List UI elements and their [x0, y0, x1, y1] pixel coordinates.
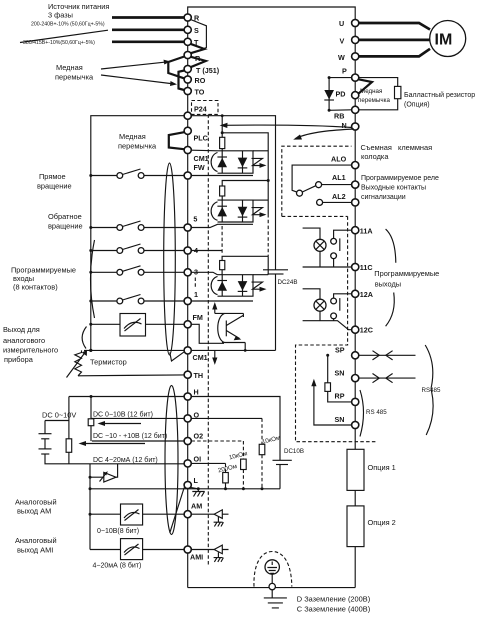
lamp unit 12A-12C	[303, 289, 352, 330]
resistor ballast	[395, 86, 401, 98]
svg-text:RO: RO	[195, 76, 206, 85]
svg-text:H: H	[194, 388, 199, 397]
terminal RP	[352, 398, 359, 405]
svg-text:Термистор: Термистор	[90, 358, 127, 367]
svg-text:R: R	[195, 54, 201, 63]
terminal R	[184, 14, 191, 21]
svg-text:измерительного: измерительного	[3, 346, 58, 355]
terminal SN lower	[352, 421, 359, 428]
wire opto1 output	[253, 150, 268, 152]
wire chain branch right	[222, 133, 268, 200]
ballast resistor branch	[359, 78, 398, 110]
terminal AMI	[184, 546, 191, 553]
motor IM	[430, 21, 466, 57]
arrow down boundary	[214, 350, 216, 361]
buffer OI arrow	[100, 473, 107, 482]
small brace RS485	[360, 390, 364, 437]
junction dot rail 5	[89, 226, 92, 229]
relay contacts	[297, 190, 303, 196]
junction chain	[221, 131, 224, 134]
resistor 10k O	[259, 444, 265, 454]
wire right bus below options	[354, 547, 356, 588]
wire V to motor	[359, 39, 430, 42]
battery DC24V	[263, 269, 288, 271]
wire CM1 to battery minus	[191, 349, 275, 351]
svg-text:O2: O2	[194, 432, 204, 441]
wire OI line	[89, 462, 226, 464]
wire 5 to opto2	[191, 224, 253, 227]
wire top rail	[188, 7, 356, 23]
wire bottom analog rail	[90, 488, 280, 490]
arrow O2 label	[82, 443, 145, 445]
terminal AM	[184, 511, 191, 518]
wire phase T	[112, 40, 184, 43]
svg-text:выход AM: выход AM	[17, 507, 51, 516]
optocoupler 1	[211, 151, 266, 173]
svg-text:W: W	[338, 53, 345, 62]
arrow up boundary	[214, 306, 216, 314]
svg-text:выходы: выходы	[375, 280, 401, 289]
svg-text:Обратное: Обратное	[48, 212, 82, 221]
switch 1	[91, 295, 184, 302]
svg-text:(Опция): (Опция)	[404, 102, 430, 109]
svg-text:RS 485: RS 485	[366, 409, 387, 416]
wire AM row	[90, 513, 184, 515]
dashed boundary outputs	[296, 216, 376, 441]
svg-text:вращение: вращение	[48, 221, 83, 230]
svg-text:перемычка: перемычка	[55, 73, 94, 82]
diode PD	[324, 90, 334, 100]
brace outputs top	[386, 229, 396, 263]
curl mark near rail	[82, 327, 86, 349]
svg-text:380/415В+-10%(50,60Гц+-5%): 380/415В+-10%(50,60Гц+-5%)	[23, 40, 95, 46]
terminal T	[184, 38, 191, 45]
big brace RS485	[425, 345, 433, 435]
wire SN2 internal	[314, 382, 352, 425]
svg-text:Программируемое реле: Программируемое реле	[361, 175, 439, 182]
junction chain 2	[267, 179, 270, 182]
terminal FW	[184, 172, 191, 179]
resistor opto 3	[220, 261, 225, 270]
svg-text:Опция 2: Опция 2	[368, 518, 396, 527]
svg-text:Опция 1: Опция 1	[368, 463, 396, 472]
terminal RO	[184, 76, 191, 83]
svg-text:CM1: CM1	[194, 154, 209, 163]
meter AM box	[121, 504, 143, 525]
svg-text:PD: PD	[336, 90, 346, 99]
twist marks SP	[373, 351, 393, 360]
svg-text:SN: SN	[335, 415, 345, 424]
transistor FM	[215, 313, 245, 350]
jumper R-R2 copper detour	[190, 20, 207, 55]
wire FW to opto1	[191, 175, 253, 177]
svg-text:12C: 12C	[360, 326, 373, 335]
switch 5	[91, 221, 184, 228]
svg-text:Программируемые: Программируемые	[374, 269, 439, 278]
svg-text:C Заземление (400В): C Заземление (400В)	[297, 605, 370, 614]
arrow removable block long	[223, 125, 352, 128]
dashed box relay	[282, 146, 352, 216]
svg-text:DC 4−20мА (12 бит): DC 4−20мА (12 бит)	[93, 456, 158, 464]
jumper P-PD copper	[359, 79, 373, 93]
wire CM1 to opto1	[191, 149, 217, 152]
wire phase S	[112, 28, 184, 31]
terminal TH	[184, 371, 191, 378]
svg-text:Аналоговый: Аналоговый	[15, 536, 57, 545]
leader line voltage spec 2	[20, 30, 108, 42]
option 1 box	[347, 449, 364, 490]
cable shield ellipse 1	[164, 163, 176, 355]
terminal T J51	[184, 65, 191, 72]
svg-text:200-240В+-10% (50,60Гц+-5%): 200-240В+-10% (50,60Гц+-5%)	[31, 22, 105, 28]
wire W to motor	[359, 49, 430, 57]
dashed chain segment	[221, 226, 223, 254]
brace inputs	[91, 240, 95, 318]
buffer AM	[191, 513, 228, 515]
wire L to rail	[191, 488, 199, 489]
terminal 1	[184, 297, 191, 304]
jumper T-R copper	[189, 43, 204, 53]
optocoupler 3	[211, 275, 266, 297]
resistor O tap	[88, 419, 94, 426]
svg-text:L: L	[194, 476, 199, 485]
twist marks SN	[373, 374, 393, 383]
optocoupler 2	[211, 200, 266, 222]
switch 3	[91, 266, 184, 273]
svg-text:11A: 11A	[360, 227, 373, 236]
svg-text:прибора: прибора	[4, 355, 34, 364]
shield tail to CM1	[170, 352, 184, 361]
terminal AL1	[352, 181, 359, 188]
wire P24 to DC24 feed	[191, 116, 275, 270]
svg-text:SP: SP	[335, 346, 345, 355]
svg-text:RS485: RS485	[422, 387, 441, 394]
thermistor	[78, 350, 184, 375]
wire 3 to opto3	[191, 272, 217, 274]
terminal R jumper	[184, 51, 191, 58]
svg-text:Балластный резистор: Балластный резистор	[404, 91, 475, 99]
wire AL2 internal	[323, 201, 352, 203]
buffer AMI	[191, 549, 228, 551]
battery cells DC0-10	[39, 433, 52, 435]
resistor opto 1	[220, 137, 225, 148]
terminal O	[184, 415, 191, 422]
svg-text:V: V	[340, 37, 345, 46]
svg-text:сигнализации: сигнализации	[361, 194, 406, 201]
terminal OI	[184, 460, 191, 467]
wire AMI row	[90, 549, 184, 551]
terminal S	[184, 26, 191, 33]
svg-text:AL1: AL1	[332, 173, 346, 182]
terminal SN	[352, 375, 359, 382]
svg-text:T (J51): T (J51)	[196, 66, 220, 75]
switch FW	[91, 169, 184, 176]
svg-text:перемычка: перемычка	[358, 97, 390, 104]
cable shield ellipse 2	[165, 386, 178, 535]
svg-text:SN: SN	[335, 369, 345, 378]
terminal U	[352, 19, 359, 26]
jumper R-T copper	[189, 56, 206, 68]
option 2 box	[347, 506, 364, 547]
svg-text:DC24В: DC24В	[278, 279, 298, 286]
terminal W	[352, 53, 359, 60]
svg-text:Медная: Медная	[360, 88, 382, 95]
lamp unit 11A-11C	[303, 228, 352, 267]
jumper T-TO copper left	[179, 71, 185, 91]
svg-text:0−10В(8 бит): 0−10В(8 бит)	[97, 527, 139, 535]
dashed mark terminals 2	[194, 278, 196, 290]
junction SP	[326, 354, 329, 357]
terminal P	[352, 74, 359, 81]
arrow removable block curved	[296, 129, 355, 139]
wire FM to transistor	[191, 324, 224, 343]
terminal 12C	[352, 326, 359, 333]
resistor 200R	[223, 473, 229, 483]
svg-text:12A: 12A	[360, 290, 373, 299]
meter AMI box	[121, 539, 143, 560]
terminal H	[184, 393, 191, 400]
resistor RP	[328, 355, 352, 402]
svg-text:FM: FM	[193, 313, 203, 322]
svg-text:ALO: ALO	[331, 155, 347, 164]
wire O line	[91, 417, 262, 419]
battery DC10V	[273, 459, 292, 461]
junction dot rail 3	[89, 271, 92, 274]
svg-text:TH: TH	[194, 371, 204, 380]
svg-text:Съемная клеммная: Съемная клеммная	[361, 143, 433, 152]
terminal 3	[184, 269, 191, 276]
svg-text:Медная: Медная	[56, 63, 83, 72]
terminal N	[352, 123, 359, 130]
jumper R-RO copper left	[168, 57, 184, 79]
wire between options	[354, 490, 356, 506]
wire opto3 output	[253, 256, 268, 274]
svg-text:3 фазы: 3 фазы	[48, 11, 73, 20]
ground symbol	[264, 590, 287, 608]
svg-text:перемычка: перемычка	[118, 142, 157, 151]
terminal O2	[184, 437, 191, 444]
svg-text:RB: RB	[334, 112, 344, 121]
wire ALO internal	[292, 165, 352, 192]
svg-text:PLC: PLC	[194, 134, 208, 143]
dashed box P24	[192, 101, 219, 115]
buffer OI	[104, 472, 116, 482]
arrow to jumper 1	[101, 62, 168, 69]
svg-text:вращение: вращение	[37, 182, 72, 191]
terminal ALO	[352, 162, 359, 169]
svg-text:P: P	[342, 67, 347, 76]
terminal 11A	[352, 227, 359, 234]
svg-text:R: R	[194, 14, 200, 23]
terminal P24	[184, 112, 191, 119]
svg-text:5: 5	[193, 215, 197, 224]
wire SN line	[352, 377, 416, 379]
svg-text:выход AMI: выход AMI	[17, 545, 53, 554]
arrow O label	[101, 423, 141, 425]
svg-text:DC −10 - +10В (12 бит): DC −10 - +10В (12 бит)	[93, 432, 167, 440]
wire phase R	[112, 16, 184, 19]
terminal RB	[352, 106, 359, 113]
wire SP line	[352, 354, 416, 356]
resistor 10k O2	[241, 459, 247, 469]
terminal CM1	[184, 146, 191, 153]
terminal L	[184, 481, 191, 488]
wire bottom rail	[188, 587, 356, 589]
svg-text:TO: TO	[195, 88, 205, 97]
wire 1 to opto3	[191, 300, 253, 302]
thermistor arrow	[67, 353, 86, 378]
ground hatch L	[192, 489, 204, 497]
wire AL1 internal	[322, 184, 352, 186]
earth junction	[271, 574, 273, 583]
svg-text:OI: OI	[194, 455, 202, 464]
wire left bus vertical	[187, 18, 189, 588]
arrow to jumper 2	[101, 75, 175, 84]
resistor pot	[66, 439, 72, 453]
terminal 12A	[352, 290, 359, 297]
svg-text:1: 1	[194, 290, 198, 299]
wire 4 stub	[191, 250, 222, 252]
svg-text:Медная: Медная	[119, 132, 146, 141]
wire H line	[69, 397, 280, 461]
svg-text:IM: IM	[435, 32, 453, 49]
svg-text:Аналоговый: Аналоговый	[15, 497, 57, 506]
wire right bus vertical	[354, 23, 356, 449]
junction dot rail 4	[89, 249, 92, 252]
svg-text:11C: 11C	[360, 263, 373, 272]
svg-text:P24: P24	[194, 105, 207, 114]
svg-text:4−20мА (8 бит): 4−20мА (8 бит)	[93, 562, 142, 570]
terminal TO	[184, 87, 191, 94]
terminal 4	[184, 247, 191, 254]
terminal 11C	[352, 263, 359, 270]
wire U to motor	[359, 23, 430, 30]
wire P to diode branch	[329, 78, 352, 111]
svg-text:N: N	[342, 121, 347, 130]
svg-text:Выходные контакты: Выходные контакты	[361, 185, 426, 192]
jumper PLC-CM1 copper	[169, 132, 184, 149]
dashed boundary vertical	[207, 114, 209, 565]
svg-text:T: T	[194, 38, 199, 47]
terminal AL2	[352, 199, 359, 206]
svg-text:RP: RP	[335, 392, 345, 401]
terminal V	[352, 36, 359, 43]
brace outputs bottom	[386, 293, 395, 327]
potentiometer loop	[45, 397, 89, 464]
vertical rail analog out	[89, 464, 91, 550]
shield tail to L	[170, 488, 184, 533]
wire meter FM	[91, 323, 184, 325]
svg-text:CM1: CM1	[193, 353, 208, 362]
wire opto common chain	[221, 116, 223, 151]
wire opto2 output	[253, 199, 268, 201]
svg-text:Прямое: Прямое	[39, 172, 66, 181]
svg-text:DC10В: DC10В	[284, 448, 304, 455]
junction dot P branch	[328, 76, 331, 79]
svg-text:(8 контактов): (8 контактов)	[13, 283, 58, 292]
svg-text:AM: AM	[191, 502, 202, 511]
junction rail meter	[89, 323, 92, 326]
svg-text:Выход для: Выход для	[3, 325, 40, 334]
svg-text:AL2: AL2	[332, 192, 346, 201]
svg-text:DC 0~10V: DC 0~10V	[42, 411, 76, 420]
svg-text:DC 0−10В (12 бит): DC 0−10В (12 бит)	[93, 411, 153, 419]
wire P24 to left rail	[91, 116, 184, 351]
svg-text:D Заземление (200В): D Заземление (200В)	[297, 595, 370, 604]
terminal PD	[352, 92, 359, 99]
svg-text:FW: FW	[194, 163, 205, 172]
terminal FM	[184, 321, 191, 328]
terminal CM1 second	[184, 347, 191, 354]
terminal PLC	[184, 127, 191, 134]
svg-text:AMI: AMI	[190, 553, 203, 562]
switch 4	[91, 244, 184, 251]
meter FM box	[120, 314, 146, 337]
wire O2 line	[92, 440, 184, 442]
wire chain down	[267, 181, 269, 215]
protective earth circle	[265, 560, 279, 574]
terminal SP	[352, 352, 359, 359]
wire H tap	[90, 397, 92, 419]
terminal 5	[184, 224, 191, 231]
svg-text:колодка: колодка	[361, 152, 389, 161]
resistor opto 2	[220, 186, 225, 196]
svg-text:U: U	[339, 19, 344, 28]
dashed dome earth	[254, 552, 292, 587]
svg-text:S: S	[194, 26, 199, 35]
svg-text:аналогового: аналогового	[3, 336, 45, 345]
